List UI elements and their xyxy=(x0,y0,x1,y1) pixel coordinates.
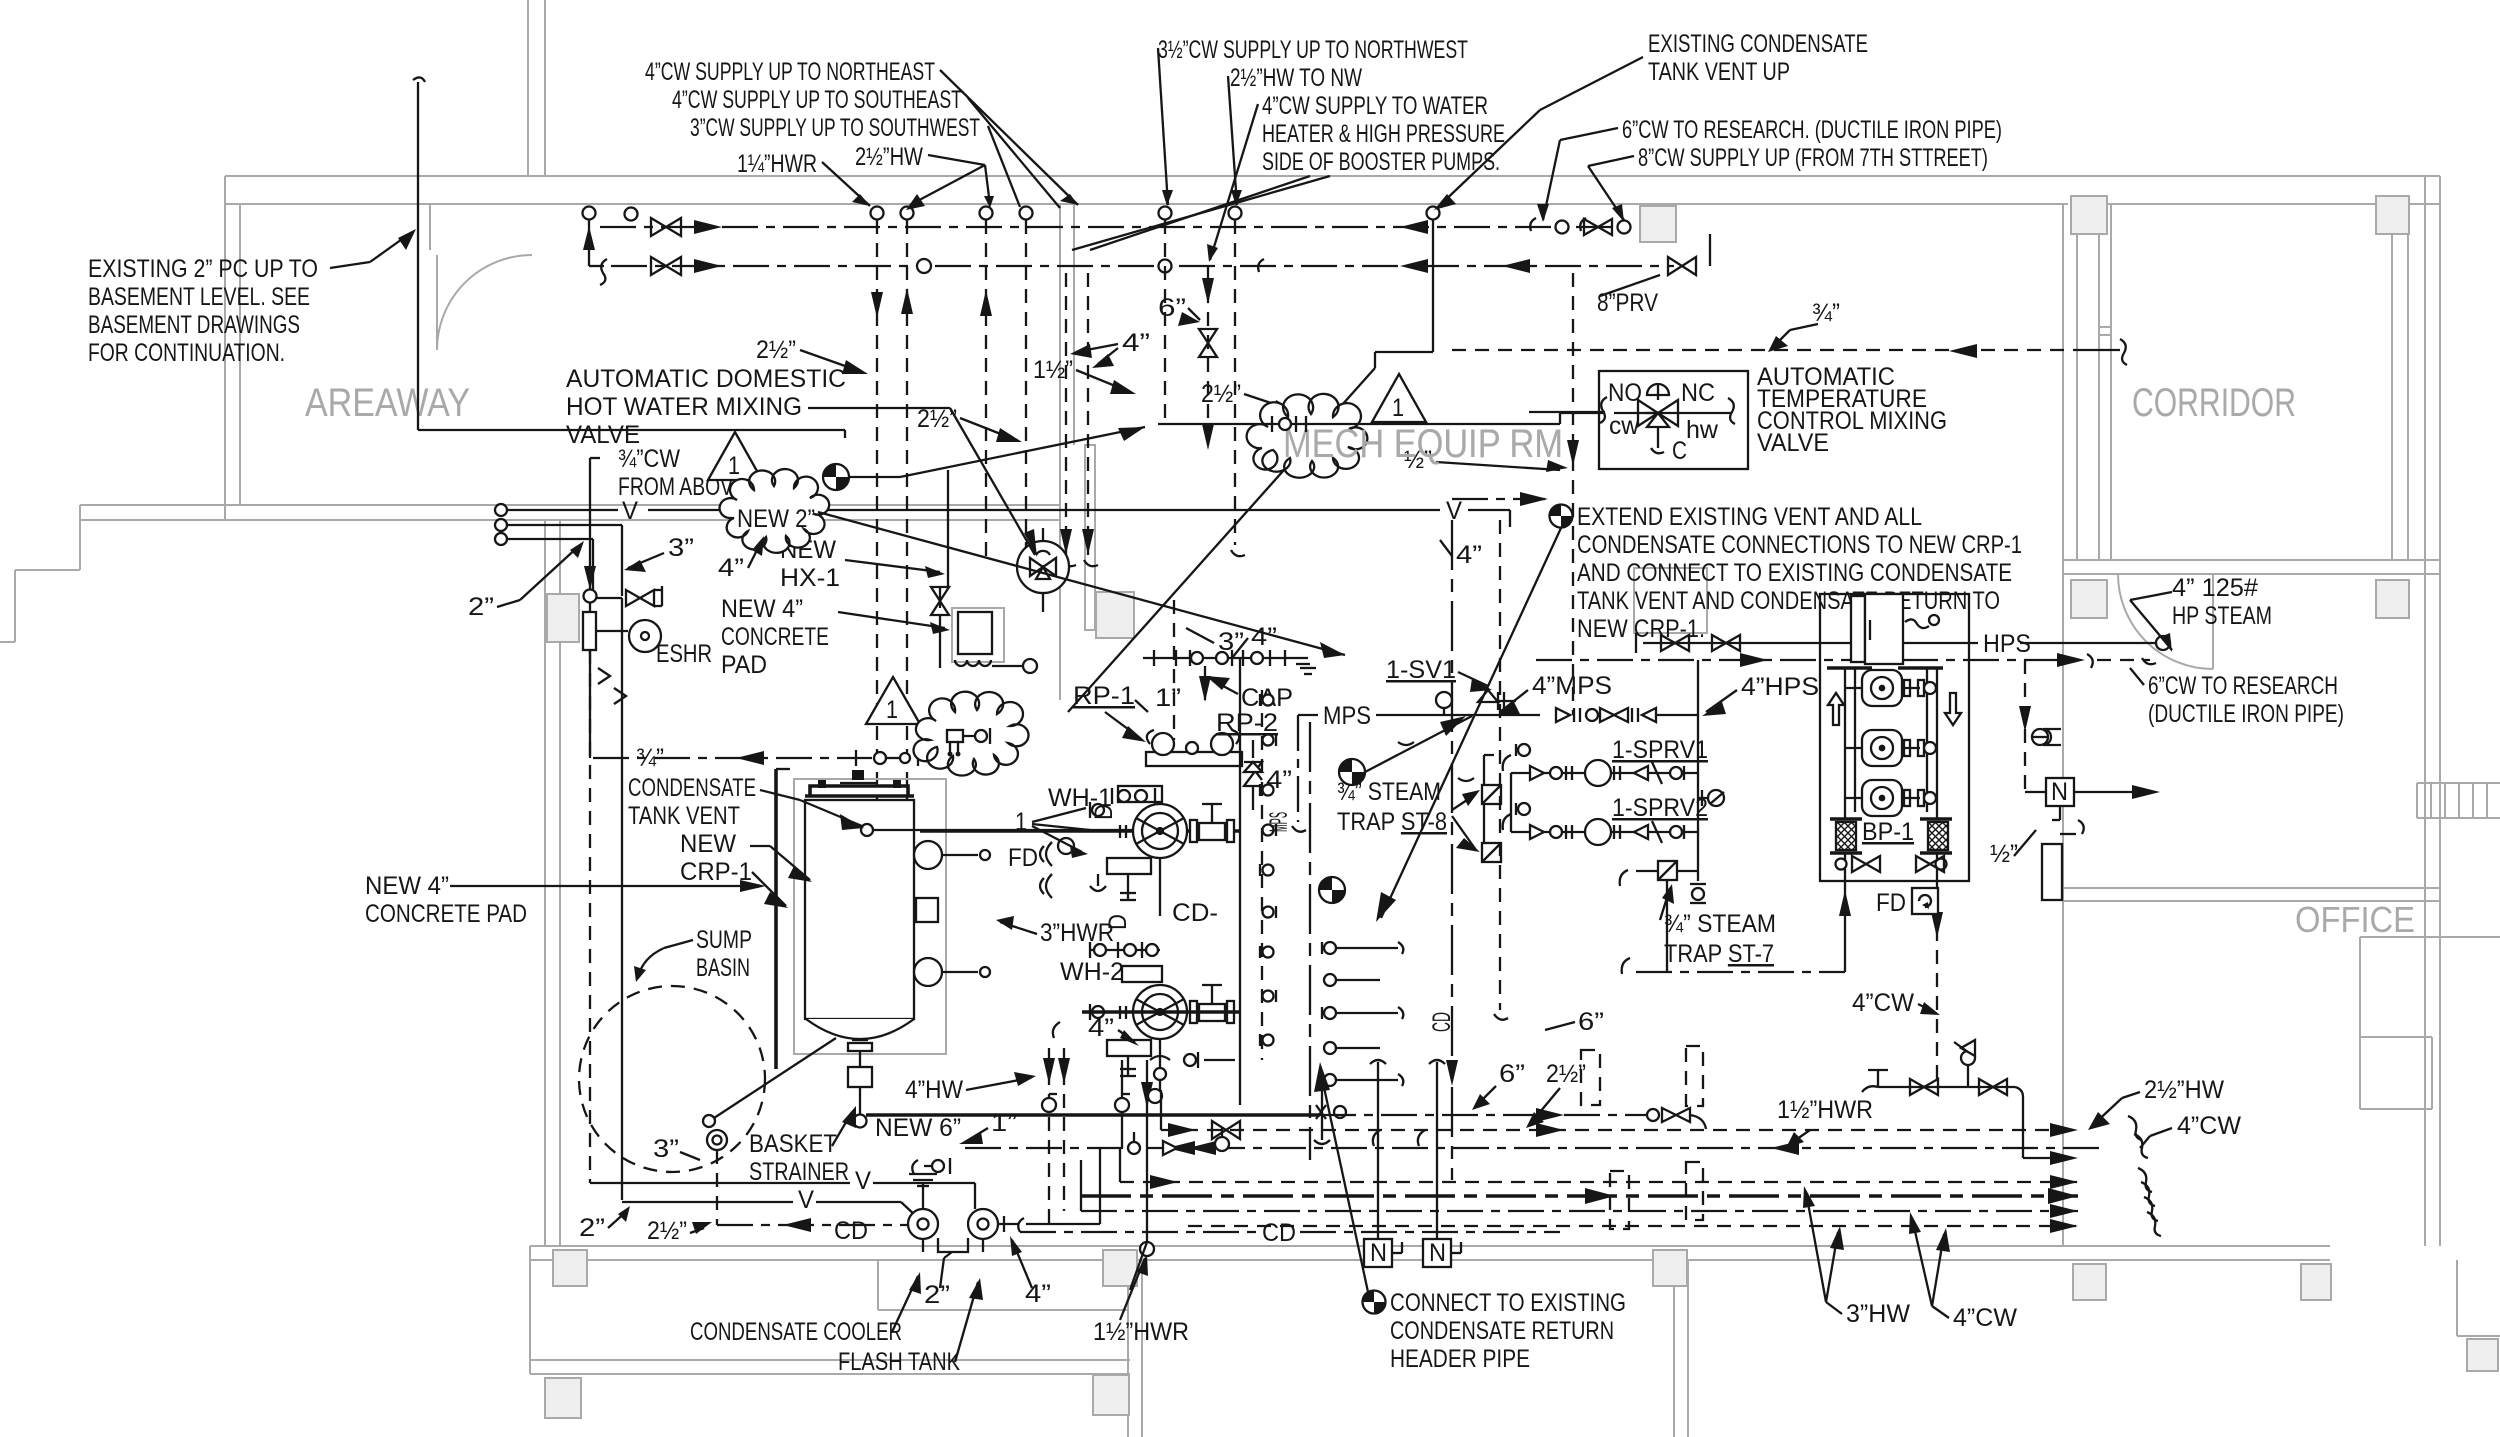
svg-text:TANK VENT: TANK VENT xyxy=(628,802,740,830)
svg-text:SIDE OF BOOSTER PUMPS.: SIDE OF BOOSTER PUMPS. xyxy=(1262,148,1500,176)
svg-text:1: 1 xyxy=(1392,394,1404,422)
areaway door jamb xyxy=(429,204,431,250)
HPS line y=643 xyxy=(1643,642,1978,644)
svg-text:ESHR: ESHR xyxy=(656,640,712,668)
svg-text:4”: 4” xyxy=(1456,541,1482,569)
existing 2" PC riser xyxy=(413,77,425,82)
svg-text:FD: FD xyxy=(1008,844,1038,872)
temp control mixing valve box xyxy=(1599,371,1748,469)
valve on line1 xyxy=(651,218,681,236)
svg-text:AREAWAY: AREAWAY xyxy=(305,381,470,425)
leaders from northwest labels xyxy=(1158,48,1168,205)
wire: y=1196 dashdot bold xyxy=(1081,1194,2078,1198)
big diagonal from EXTEND note to manifold xyxy=(1381,528,1561,918)
existing condensate tank vent up leader xyxy=(1540,57,1643,110)
svg-text:2½”: 2½” xyxy=(756,336,796,364)
wire: 3/4 dash line y=350 xyxy=(1452,349,2077,351)
half circle + fitting above N xyxy=(2043,729,2061,745)
svg-text:V: V xyxy=(1446,497,1462,525)
svg-text:NEW 6”: NEW 6” xyxy=(875,1114,961,1142)
wire: vent dash-dot into note y=499 xyxy=(1452,498,1545,500)
extra WH-2 inlet fittings xyxy=(1120,970,1141,1019)
bottom of 4HPS: vertical fitting xyxy=(1690,883,1706,885)
svg-text:TRAP ST-7: TRAP ST-7 xyxy=(1664,940,1774,968)
wire: CW main line 1 dash-dot y=227 xyxy=(600,226,1614,228)
svg-text:CONDENSATE COOLER: CONDENSATE COOLER xyxy=(690,1318,902,1346)
8cw supply leader xyxy=(1588,156,1634,166)
svg-text:3½”CW SUPPLY UP TO NORTHWEST: 3½”CW SUPPLY UP TO NORTHWEST xyxy=(1158,36,1468,64)
wire: top tee line y=658 xyxy=(1143,657,1285,659)
leader from hot water mixing valve text xyxy=(808,407,950,409)
svg-text:1¼”HWR: 1¼”HWR xyxy=(737,150,817,178)
svg-text:EXISTING 2” PC UP TO: EXISTING 2” PC UP TO xyxy=(88,255,318,283)
dashed drop to N xyxy=(2024,660,2026,792)
svg-text:4”: 4” xyxy=(1088,1014,1114,1042)
wire: MPS valve train to right xyxy=(1556,708,1570,722)
svg-text:1”: 1” xyxy=(1155,684,1181,712)
header flanges xyxy=(1827,666,1872,670)
vertical feeders from WH area to bundle xyxy=(1048,1048,1050,1232)
condensate cooler pump xyxy=(908,1209,938,1239)
trap square ST-7 source xyxy=(1658,861,1677,880)
svg-text:VALVE: VALVE xyxy=(1757,429,1829,457)
svg-text:2½”: 2½” xyxy=(1546,1060,1586,1088)
riser circles on line 1 xyxy=(583,207,596,220)
concrete pad gray rect xyxy=(794,779,946,1054)
svg-text:1-SV1: 1-SV1 xyxy=(1386,656,1456,684)
wire: vent elbows to cooler xyxy=(589,1180,591,1183)
svg-text:hw: hw xyxy=(1686,416,1719,444)
svg-text:8”CW SUPPLY UP (FROM 7TH STTRE: 8”CW SUPPLY UP (FROM 7TH STTREET) xyxy=(1638,144,1988,172)
svg-text:NEW CRP-1.: NEW CRP-1. xyxy=(1577,615,1705,643)
svg-text:1½”HWR: 1½”HWR xyxy=(1777,1096,1873,1124)
svg-text:1: 1 xyxy=(1015,808,1027,836)
svg-text:¾”: ¾” xyxy=(1812,299,1840,327)
wire: ST-7 dashdot to BP suction xyxy=(1622,958,1630,974)
hook under N xyxy=(2078,820,2084,834)
svg-text:1-SPRV1: 1-SPRV1 xyxy=(1612,736,1708,764)
wire: CD line to left xyxy=(717,1224,908,1226)
MPS vertical dashdot xyxy=(1297,715,1299,822)
mech room lower-left wall xyxy=(544,520,546,1246)
svg-text:PAD: PAD xyxy=(721,651,767,679)
svg-text:3”HWR: 3”HWR xyxy=(1040,919,1114,947)
building edge steps lower-left xyxy=(79,505,81,570)
suction drop left xyxy=(1844,881,1846,972)
N box right xyxy=(2046,778,2074,806)
svg-text:2½”: 2½” xyxy=(1201,380,1241,408)
svg-text:AUTOMATIC DOMESTIC: AUTOMATIC DOMESTIC xyxy=(566,365,846,393)
svg-text:CD-: CD- xyxy=(1172,899,1218,927)
triangle 1 lower + cloud xyxy=(866,677,920,724)
svg-text:6”: 6” xyxy=(1578,1008,1604,1036)
svg-text:OFFICE: OFFICE xyxy=(2295,899,2415,940)
svg-text:CD: CD xyxy=(1428,1012,1456,1032)
svg-text:VALVE: VALVE xyxy=(566,421,640,449)
wire: 3/4 dashdot at 758 xyxy=(593,757,872,759)
svg-text:V: V xyxy=(622,497,638,525)
mixing valve circle above HX xyxy=(1017,541,1069,593)
svg-text:CONNECT TO EXISTING: CONNECT TO EXISTING xyxy=(1390,1289,1626,1317)
vertical connecting SPRV trains xyxy=(1510,773,1512,832)
svg-text:1”: 1” xyxy=(991,1109,1017,1137)
flow arrows inside xyxy=(1828,693,1844,725)
svg-text:1½”HWR: 1½”HWR xyxy=(1093,1318,1189,1346)
svg-text:4”MPS: 4”MPS xyxy=(1532,672,1612,700)
valve on line2 xyxy=(651,257,681,275)
svg-text:2½”HW: 2½”HW xyxy=(2144,1076,2224,1104)
svg-text:NC: NC xyxy=(1681,379,1715,407)
column boxes xyxy=(1640,206,1676,242)
window in west wall xyxy=(1085,445,1095,630)
corridor west walls xyxy=(2062,204,2064,1246)
wire: y=1115 solid->dashdot xyxy=(1320,1114,1648,1116)
wire: left vertical pipes xyxy=(621,525,623,596)
svg-text:HEATER & HIGH PRESSURE: HEATER & HIGH PRESSURE xyxy=(1262,120,1505,148)
6cw research leader xyxy=(1560,128,1618,140)
6"CW TO RESEARCH leader + text xyxy=(2142,658,2156,664)
svg-text:4”: 4” xyxy=(718,554,744,582)
svg-text:4”HPS: 4”HPS xyxy=(1741,673,1819,701)
svg-text:4” 125#: 4” 125# xyxy=(2172,574,2258,602)
cloud center-right xyxy=(1247,394,1368,478)
leaders xyxy=(760,790,800,800)
fittings inside cloud xyxy=(947,730,963,742)
down arrow below tee xyxy=(1199,676,1211,702)
diagonal from cloud to WH area xyxy=(818,512,1345,655)
svg-text:N: N xyxy=(1370,1239,1387,1267)
CONNECT note + leader xyxy=(1363,1291,1386,1314)
svg-text:NEW: NEW xyxy=(680,830,736,858)
svg-text:CONDENSATE: CONDENSATE xyxy=(628,774,756,802)
svg-text:FOR CONTINUATION.: FOR CONTINUATION. xyxy=(88,339,285,367)
svg-text:4”: 4” xyxy=(1122,329,1150,357)
svg-text:N: N xyxy=(1429,1239,1446,1267)
diagonal from tank to drain xyxy=(714,1038,836,1118)
svg-text:SUMP: SUMP xyxy=(696,926,752,954)
svg-text:V: V xyxy=(798,1186,814,1214)
quadrant symbol xyxy=(823,464,849,490)
svg-text:CD: CD xyxy=(1262,1219,1296,1247)
ST-8 trap squares xyxy=(1482,785,1501,804)
wire: trap ST-7 vertical drop xyxy=(1666,880,1668,972)
svg-text:1-SPRV2: 1-SPRV2 xyxy=(1612,794,1708,822)
svg-text:NEW 4”: NEW 4” xyxy=(365,872,449,900)
svg-text:¾”CW: ¾”CW xyxy=(618,445,680,473)
svg-text:½”: ½” xyxy=(1990,840,2018,868)
4"HPS vertical xyxy=(1697,660,1699,881)
sump basin dashed circle xyxy=(579,986,765,1172)
areaway left wall xyxy=(224,176,226,520)
right faucet assembly y=1087 xyxy=(1862,1040,2078,1165)
svg-text:6”CW TO RESEARCH. (DUCTILE IRO: 6”CW TO RESEARCH. (DUCTILE IRON PIPE) xyxy=(1622,116,2002,144)
dense CAP tee fittings xyxy=(1154,650,1310,666)
svg-text:HOT WATER MIXING: HOT WATER MIXING xyxy=(566,393,802,421)
wall top band xyxy=(225,175,2440,177)
svg-text:(DUCTILE IRON PIPE): (DUCTILE IRON PIPE) xyxy=(2148,700,2344,728)
8CW riser drop to cloud xyxy=(1432,220,1434,352)
Z valve below RP-2 xyxy=(1252,740,1254,758)
svg-text:3”: 3” xyxy=(668,534,694,562)
svg-text:AND CONNECT TO EXISTING CONDE: AND CONNECT TO EXISTING CONDENSATE xyxy=(1577,559,2012,587)
office bottom wall xyxy=(2063,887,2440,889)
dashed drop from drain xyxy=(716,1150,718,1225)
wire: lines from stub circles xyxy=(507,524,622,526)
svg-text:2½”HW: 2½”HW xyxy=(855,143,923,171)
WH-2 valve assembly xyxy=(1082,966,1234,1056)
grounding symbol xyxy=(922,1182,924,1209)
support line left of tank xyxy=(774,769,778,1069)
bottom wall of mech room xyxy=(530,1245,2330,1247)
tank CRP-1 xyxy=(805,800,914,1019)
areaway door arc xyxy=(437,255,532,350)
svg-text:MPS: MPS xyxy=(1265,812,1293,832)
motor top xyxy=(1851,596,1865,662)
wire: y=1211 dashdot xyxy=(1081,1210,2078,1212)
svg-text:4”: 4” xyxy=(1025,1280,1051,1308)
hooks left of WH-2 xyxy=(1053,1022,1060,1038)
stair rails right xyxy=(2417,783,2500,818)
svg-text:CORRIDOR: CORRIDOR xyxy=(2132,381,2296,425)
vent nozzle + line xyxy=(861,824,873,836)
dashed guide rects xyxy=(1581,1050,1600,1105)
wire: CW main line 2 dash-dot y=266 xyxy=(611,265,917,267)
valve 8" on line1 right xyxy=(1584,219,1612,235)
6 inch branch: vertical w/ valve xyxy=(1207,266,1209,450)
wire: WH-1 header line y=831 xyxy=(920,829,1240,833)
svg-text:4”CW: 4”CW xyxy=(1953,1304,2017,1332)
svg-text:4”HW: 4”HW xyxy=(905,1076,963,1104)
svg-text:6”CW TO RESEARCH: 6”CW TO RESEARCH xyxy=(2148,672,2338,700)
wire: NEW 6" line xyxy=(866,1113,1320,1117)
svg-text:4”CW SUPPLY UP TO NORTHEAST: 4”CW SUPPLY UP TO NORTHEAST xyxy=(645,58,935,86)
WH-1 valve assembly xyxy=(1090,786,1234,874)
hooks at manifold right bottom xyxy=(1373,1130,1380,1146)
fitting row above pumps xyxy=(912,1160,918,1174)
bottom nozzle + strainer xyxy=(852,1039,868,1041)
svg-text:1: 1 xyxy=(886,696,898,724)
right side lower room walls xyxy=(2360,936,2500,938)
pump 1 xyxy=(1845,670,1936,706)
svg-text:D: D xyxy=(1090,804,1118,820)
N boxes xyxy=(1377,1062,1379,1239)
svg-text:HEADER PIPE: HEADER PIPE xyxy=(1390,1345,1530,1373)
pump skid outline xyxy=(1820,594,1969,881)
wire: vertical x=1500 6" xyxy=(1499,520,1501,1010)
svg-text:2”: 2” xyxy=(468,593,494,621)
svg-text:2”: 2” xyxy=(579,1214,605,1242)
below WH-2 fittings xyxy=(1127,1056,1129,1076)
office door arc xyxy=(2118,574,2213,669)
wire: HX feed pair xyxy=(947,470,949,588)
side circles xyxy=(914,841,942,869)
svg-text:1½”: 1½” xyxy=(1033,356,1073,384)
extra WH-1 inlet fittings xyxy=(1120,790,1141,838)
svg-text:STRAINER: STRAINER xyxy=(749,1158,849,1186)
vertical from tee down x=1174 xyxy=(1173,600,1175,740)
triangle 1 upper xyxy=(708,432,762,480)
8PRV valve on line2 xyxy=(1668,257,1696,275)
svg-text:3”: 3” xyxy=(653,1135,679,1163)
svg-text:CONCRETE PAD: CONCRETE PAD xyxy=(365,900,527,928)
pump 2 xyxy=(1845,730,1936,766)
svg-text:3”CW SUPPLY UP TO SOUTHWEST: 3”CW SUPPLY UP TO SOUTHWEST xyxy=(690,114,980,142)
svg-text:4”CW: 4”CW xyxy=(1852,989,1914,1017)
svg-text:CONCRETE: CONCRETE xyxy=(721,623,829,651)
svg-text:WH-2: WH-2 xyxy=(1060,958,1124,986)
svg-text:MECH EQUIP RM: MECH EQUIP RM xyxy=(1283,422,1563,466)
wire: y=1130 dashed xyxy=(1161,1129,2078,1131)
manifold dashed box xyxy=(1309,722,1311,1160)
svg-text:RP-2: RP-2 xyxy=(1216,709,1278,737)
flash tank pump xyxy=(968,1209,998,1239)
svg-text:HPS: HPS xyxy=(1983,630,2031,658)
svg-text:TANK VENT AND CONDENSATE RETUR: TANK VENT AND CONDENSATE RETURN TO xyxy=(1577,587,2000,615)
svg-text:CONDENSATE RETURN: CONDENSATE RETURN xyxy=(1390,1317,1614,1345)
svg-text:8”PRV: 8”PRV xyxy=(1597,289,1658,317)
wire: MPS line y=715 xyxy=(1298,714,1318,716)
vertical risers below line1 xyxy=(876,220,878,870)
svg-text:V: V xyxy=(855,1167,871,1195)
svg-text:2½”HW TO NW: 2½”HW TO NW xyxy=(1230,64,1362,92)
hook at 917 xyxy=(917,259,931,273)
svg-text:RP-1: RP-1 xyxy=(1073,682,1135,710)
valve body rect xyxy=(583,612,596,650)
flow arrow on line1 xyxy=(694,220,722,234)
svg-text:N: N xyxy=(2051,778,2068,806)
quadrant symbol mid xyxy=(1339,759,1365,785)
gauge on 4HPS xyxy=(1708,790,1724,806)
areaway bottom wall xyxy=(80,504,1060,506)
corridor/office dividing wall xyxy=(2063,559,2440,561)
gray box behind TANK VENT text xyxy=(1634,568,1707,633)
wire: y=1148 dashdot HWR xyxy=(965,1147,2100,1149)
wire: y=1182 dashed xyxy=(1120,1181,2078,1183)
svg-text:2½”: 2½” xyxy=(647,1217,687,1245)
mech room west wall upper xyxy=(1059,204,1061,445)
svg-text:3”: 3” xyxy=(1218,628,1244,656)
svg-text:MPS: MPS xyxy=(1323,702,1371,730)
wire: V vent line y=510 xyxy=(507,509,618,511)
manifold bottom valve xyxy=(1316,1105,1326,1119)
valve+fittings right of MPS under SV xyxy=(1398,742,1414,745)
leader lines top-left labels xyxy=(940,70,1078,205)
svg-text:cw: cw xyxy=(1609,412,1640,440)
pump 3 xyxy=(1845,780,1936,816)
wire: y=1226 dashed xyxy=(1188,1225,2078,1227)
NEW HX-1 xyxy=(952,608,1004,662)
down flow markers on pipes xyxy=(598,668,610,684)
svg-text:BASEMENT DRAWINGS: BASEMENT DRAWINGS xyxy=(88,311,300,339)
svg-text:FD: FD xyxy=(1876,889,1906,917)
svg-text:CONDENSATE CONNECTIONS TO NEW: CONDENSATE CONNECTIONS TO NEW CRP-1 xyxy=(1577,531,2022,559)
wire: line y=424 to mixing box xyxy=(1158,423,1560,425)
svg-text:NEW 2”: NEW 2” xyxy=(737,505,815,533)
svg-text:3”HW: 3”HW xyxy=(1846,1300,1910,1328)
bottom valves xyxy=(1844,853,1846,881)
quadrant symbol 2 xyxy=(1319,877,1345,903)
svg-text:BASEMENT LEVEL. SEE: BASEMENT LEVEL. SEE xyxy=(88,283,310,311)
valve cross symbol xyxy=(1638,400,1678,427)
lower-left secondary wall xyxy=(530,1359,1130,1361)
svg-text:NO: NO xyxy=(1608,379,1642,407)
svg-text:BP-1: BP-1 xyxy=(1862,818,1914,846)
svg-text:4”: 4” xyxy=(1251,623,1277,651)
svg-text:EXTEND EXISTING VENT AND ALL: EXTEND EXISTING VENT AND ALL xyxy=(1577,503,1922,531)
svg-text:4”CW SUPPLY UP TO SOUTHEAST: 4”CW SUPPLY UP TO SOUTHEAST xyxy=(672,86,962,114)
tank top fittings xyxy=(810,786,908,796)
4" 125# HP STEAM leader xyxy=(2130,592,2172,600)
svg-text:BASKET: BASKET xyxy=(749,1130,837,1158)
hooks on line1 right xyxy=(1530,218,1536,231)
svg-text:CD: CD xyxy=(834,1217,868,1245)
ESHR circle xyxy=(629,620,661,652)
8PRV leader xyxy=(1600,275,1660,296)
svg-text:1: 1 xyxy=(728,452,740,480)
extend existing note xyxy=(1550,505,1573,528)
wire: steam dash-dot y=660 with arrows xyxy=(1536,659,2085,661)
wire: CD line y=1232 right segment xyxy=(1020,1231,1256,1233)
svg-text:BASIN: BASIN xyxy=(696,954,750,982)
svg-text:6”: 6” xyxy=(1499,1060,1525,1088)
side pipes xyxy=(1844,668,1846,820)
discharge drop right xyxy=(1936,881,1938,1087)
flex connectors xyxy=(1830,819,1952,853)
svg-text:2”: 2” xyxy=(924,1281,950,1309)
svg-text:TANK VENT UP: TANK VENT UP xyxy=(1648,58,1790,86)
svg-text:HX-1: HX-1 xyxy=(780,564,840,592)
svg-text:FLASH TANK: FLASH TANK xyxy=(838,1348,960,1376)
fitting in cloud xyxy=(1279,418,1291,430)
cloud NEW 2" xyxy=(720,469,830,553)
svg-text:4”CW SUPPLY TO WATER: 4”CW SUPPLY TO WATER xyxy=(1262,92,1488,120)
triangle 1 xyxy=(1372,374,1426,422)
below WH-1 fittings xyxy=(1097,874,1099,886)
manifold stubs xyxy=(1322,942,1403,1086)
tall rect right xyxy=(2042,844,2062,900)
coils at right end xyxy=(2128,1116,2161,1236)
svg-text:¾” STEAM: ¾” STEAM xyxy=(1664,910,1776,938)
riser stub from 589: up arrow xyxy=(588,220,590,266)
corridor east walls xyxy=(2391,204,2393,560)
svg-text:EXISTING CONDENSATE: EXISTING CONDENSATE xyxy=(1648,30,1868,58)
HIC fitting right xyxy=(998,1223,1018,1225)
svg-text:HP STEAM: HP STEAM xyxy=(2172,602,2272,630)
wire: vertical 8in dashed x=1573 xyxy=(1572,273,1574,715)
wall top-left vertical above band xyxy=(527,0,529,176)
drain double circle xyxy=(707,1130,727,1150)
vent stub circles at x=501 xyxy=(495,504,507,516)
valve cluster at x=590 xyxy=(584,590,597,603)
svg-text:NEW 4”: NEW 4” xyxy=(721,595,803,623)
right columns of fittings x~1268 xyxy=(1239,658,1241,1105)
svg-text:C: C xyxy=(1672,437,1687,465)
RP-1 device: bracket + loops xyxy=(1146,752,1242,766)
svg-text:4”CW: 4”CW xyxy=(2177,1112,2241,1140)
